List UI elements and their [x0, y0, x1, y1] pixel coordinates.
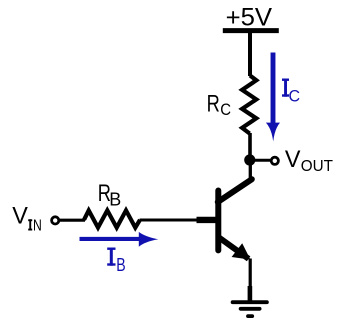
- svg-text:N: N: [33, 218, 42, 235]
- svg-text:C: C: [289, 86, 301, 105]
- svg-text:B: B: [109, 189, 121, 209]
- svg-text:V: V: [12, 203, 28, 230]
- svg-text:R: R: [207, 90, 220, 117]
- svg-text:+5V: +5V: [226, 3, 273, 31]
- svg-text:C: C: [220, 100, 231, 119]
- svg-text:B: B: [116, 254, 125, 275]
- svg-text:V: V: [285, 146, 301, 173]
- svg-text:OUT: OUT: [301, 158, 333, 175]
